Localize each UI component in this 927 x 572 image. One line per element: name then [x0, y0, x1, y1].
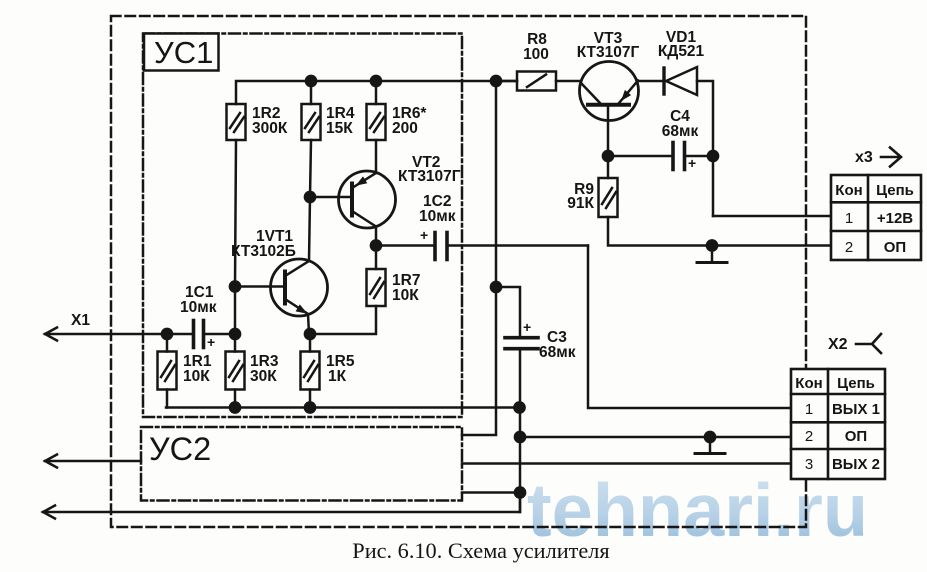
node 1R1 input junction	[162, 329, 172, 339]
wire supply feed down to УС2	[462, 81, 496, 435]
transistor 1VT1 emitter	[285, 299, 309, 334]
wire 1R4 bottom to VT2 base node	[310, 140, 311, 197]
svg-text:100: 100	[523, 46, 549, 63]
svg-text:Рис. 6.10. Схема усилителя: Рис. 6.10. Схема усилителя	[352, 538, 609, 563]
transistor 1VT1 collector	[285, 261, 309, 276]
transistor VT2 emitter arrow	[356, 176, 368, 185]
resistor 1R3	[226, 334, 245, 408]
node УС2 ground stub junction	[515, 487, 525, 497]
resistor 1R6	[367, 81, 386, 140]
diode VD1	[664, 67, 697, 95]
svg-text:х3: х3	[855, 149, 873, 166]
transistor VT3 circle	[580, 62, 639, 121]
wire ОП to X2	[520, 436, 791, 439]
wire 1R2 bottom to base node	[235, 140, 236, 287]
node rail junction 1R4	[306, 76, 316, 86]
capacitor 1C2	[376, 233, 588, 260]
wire VT2 base node to 1VT1 collector	[309, 197, 310, 261]
connector X2 table	[791, 369, 885, 479]
resistor 1R1	[158, 334, 177, 408]
resistor R8	[496, 72, 581, 91]
svg-text:УС2: УС2	[149, 431, 211, 467]
resistor R9	[599, 156, 618, 217]
transistor VT2 emitter	[352, 173, 376, 188]
node VT2 collector junction	[371, 240, 381, 250]
node ground rail 1R5	[305, 402, 315, 412]
transistor 1VT1 emitter arrow	[296, 304, 308, 313]
svg-text:КТ3107Г: КТ3107Г	[577, 44, 640, 61]
wire +12В to X3	[713, 215, 831, 218]
transistor 1VT1 base bar	[283, 272, 287, 304]
wire base node down to 1C1 node	[234, 287, 237, 335]
outer dashed border	[111, 16, 806, 527]
block УС1 dash-dot border	[143, 34, 462, 418]
svg-text:Цепь: Цепь	[876, 182, 914, 199]
УС1 label box	[144, 34, 219, 71]
svg-text:91К: 91К	[567, 195, 594, 212]
ground symbol X2	[709, 437, 712, 453]
node C3 top branch	[491, 282, 501, 292]
resistor 1R4	[302, 81, 321, 140]
svg-text:ВЫХ 2: ВЫХ 2	[832, 456, 880, 473]
wire X1 input 2 to УС2	[45, 460, 141, 463]
capacitor C4	[608, 143, 713, 170]
X1 arrow 1	[45, 328, 57, 341]
wire УС2 ground stub	[462, 491, 520, 494]
node rail junction feed	[491, 76, 501, 86]
wire X1 input 1 to 1C1 node	[45, 333, 167, 336]
svg-text:2: 2	[805, 428, 813, 445]
svg-text:ОП: ОП	[884, 239, 906, 256]
connector X3 table	[831, 175, 921, 260]
svg-text:Х2: Х2	[828, 336, 848, 353]
svg-text:КД521: КД521	[658, 43, 705, 60]
resistor 1R5	[301, 334, 320, 408]
node 1R5 emitter junction	[305, 329, 315, 339]
wire VT3 base lead	[607, 105, 610, 156]
svg-text:1К: 1К	[328, 368, 347, 385]
capacitor C3	[505, 338, 538, 512]
svg-text:Х1: Х1	[71, 312, 90, 329]
transistor 1VT1 circle	[271, 259, 328, 316]
transistor VT3 collector	[581, 83, 600, 103]
wire VD1 to +12В rail	[697, 81, 713, 216]
svg-text:3: 3	[805, 456, 813, 473]
svg-text:+: +	[420, 227, 428, 243]
svg-text:Кон: Кон	[795, 375, 822, 392]
connector X3 arrow symbol	[881, 148, 901, 167]
svg-text:Цепь: Цепь	[837, 375, 875, 392]
transistor VT2 base bar	[350, 184, 354, 216]
connector X2 socket symbol	[856, 334, 881, 353]
wire ground rail	[166, 406, 519, 409]
wire VT2 base	[310, 196, 352, 199]
svg-text:+12В: +12В	[877, 210, 913, 227]
svg-text:300К: 300К	[252, 120, 288, 137]
node 1VT1 base junction	[230, 281, 240, 291]
svg-text:10К: 10К	[392, 287, 419, 304]
wire 1C2 output to ВЫХ1	[588, 246, 791, 409]
svg-text:15К: 15К	[326, 120, 353, 137]
transistor VT3 base bar	[588, 103, 629, 107]
transistor VT3 emitter arrow	[621, 90, 631, 101]
node ground rail 1R3	[230, 402, 240, 412]
capacitor 1C1	[167, 321, 235, 348]
svg-text:Кон: Кон	[835, 182, 862, 199]
wire 1R6 bottom to VT2 emitter	[375, 140, 378, 173]
transistor VT2 collector	[352, 211, 376, 246]
node ОП wire junction	[515, 432, 525, 442]
svg-text:68мк: 68мк	[662, 123, 699, 140]
wire base node to 1VT1 base	[235, 285, 284, 288]
svg-text:+: +	[207, 334, 215, 350]
wire VT3 emitter to VD1	[638, 80, 663, 83]
svg-text:ВЫХ 1: ВЫХ 1	[832, 401, 880, 418]
svg-text:+: +	[688, 155, 696, 171]
node VT2 base junction	[305, 192, 315, 202]
node ground symbol X2 junction	[705, 432, 715, 442]
svg-text:10мк: 10мк	[180, 299, 217, 316]
svg-text:30К: 30К	[250, 368, 277, 385]
X1 arrow 3	[43, 506, 55, 519]
svg-text:КТ3102Б: КТ3102Б	[231, 243, 296, 260]
wire ВЫХ2 from УС2 to X2	[462, 462, 791, 465]
svg-text:+: +	[523, 319, 531, 335]
transistor VT3 emitter	[619, 81, 638, 104]
node ground rail C3 junction	[514, 402, 524, 412]
svg-text:УС1: УС1	[154, 35, 213, 70]
resistor 1R2	[227, 104, 246, 140]
block УС2 dash-dot border	[141, 427, 462, 501]
svg-text:1: 1	[805, 401, 813, 418]
svg-text:КТ3107Г: КТ3107Г	[398, 168, 461, 185]
node 1C1-1R3 junction	[230, 329, 240, 339]
node rail junction 1R6	[371, 76, 381, 86]
node ground symbol X3 junction	[707, 240, 717, 250]
svg-text:2: 2	[845, 239, 853, 256]
svg-text:68мк: 68мк	[539, 344, 576, 361]
svg-text:200: 200	[392, 120, 418, 137]
svg-text:10мк: 10мк	[419, 208, 456, 225]
wire X1 common	[43, 493, 520, 513]
X1 arrow 2	[45, 455, 57, 468]
transistor VT2 circle	[339, 171, 396, 228]
wire R9 bottom ОП to X3	[608, 217, 831, 246]
svg-text:ОП: ОП	[845, 428, 867, 445]
wire top supply rail	[236, 81, 517, 104]
wire C3 top lead	[496, 287, 520, 336]
svg-text:1: 1	[845, 210, 853, 227]
wire 1R7 bottom to emitter node	[310, 306, 376, 334]
node C4 left junction	[603, 151, 613, 161]
ground symbol X3	[711, 246, 714, 263]
svg-text:10К: 10К	[183, 368, 210, 385]
resistor 1R7	[367, 246, 386, 307]
node C4 right junction	[708, 151, 718, 161]
